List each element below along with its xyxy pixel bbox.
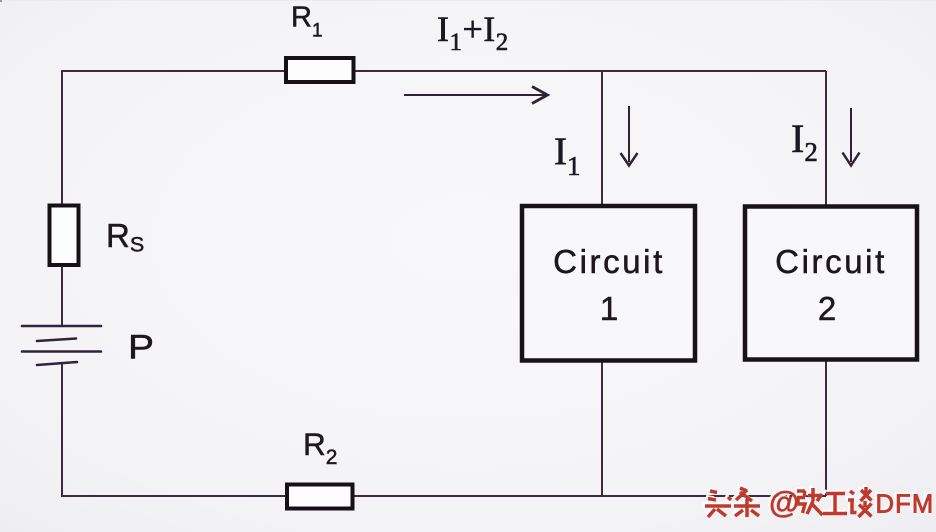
svg-text:Circuit: Circuit [553, 243, 665, 280]
svg-text:2: 2 [818, 290, 836, 327]
svg-text:1: 1 [600, 290, 618, 327]
svg-text:P: P [128, 328, 154, 366]
svg-text:Circuit: Circuit [775, 243, 887, 280]
